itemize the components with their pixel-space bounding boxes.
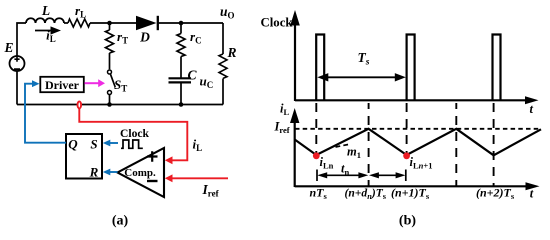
svg-text:Iref: Iref <box>202 182 220 199</box>
svg-text:S: S <box>90 136 97 151</box>
svg-text:t: t <box>530 102 534 116</box>
clock pulse 2 <box>407 35 415 101</box>
resistor R load <box>219 23 237 105</box>
resistor rL <box>68 3 90 27</box>
svg-text:(n+dn)Ts: (n+dn)Ts <box>345 187 387 202</box>
dashed timing line (n+dn)Ts <box>368 103 370 186</box>
svg-text:R: R <box>226 45 236 60</box>
clock pulse symbol <box>120 127 150 148</box>
wire Iref to comparator minus (red) <box>165 174 228 182</box>
wire driver to switch (magenta) <box>85 79 106 87</box>
arrow iL <box>35 26 61 44</box>
wire bottom rail <box>17 104 223 106</box>
capacitor C <box>169 68 214 105</box>
voltage source E <box>3 40 24 71</box>
svg-text:rT: rT <box>117 29 128 46</box>
svg-text:E: E <box>3 40 13 55</box>
svg-text:(a): (a) <box>112 214 129 229</box>
wire Q to driver (blue) <box>25 80 66 142</box>
svg-text:Clock: Clock <box>120 127 150 140</box>
svg-text:(n+1)Ts: (n+1)Ts <box>391 186 430 202</box>
svg-text:t: t <box>530 186 534 200</box>
dashed timing line (n+1)Ts <box>406 103 408 154</box>
dashed timing line nTs <box>315 103 317 154</box>
resistor rT <box>106 23 129 69</box>
node switch bottom <box>107 102 112 107</box>
clock time axis <box>295 96 539 116</box>
svg-text:iLn: iLn <box>320 155 334 171</box>
inductor L <box>26 3 64 23</box>
flip-flop latch <box>66 134 102 179</box>
diode D <box>136 16 158 45</box>
svg-text:(n+2)Ts: (n+2)Ts <box>476 186 515 202</box>
wire E bottom lead <box>16 71 18 105</box>
svg-text:m1: m1 <box>347 145 361 161</box>
svg-text:Comp.: Comp. <box>124 167 156 179</box>
wire iL sense to comparator plus (red) <box>79 109 187 164</box>
node junction rC top <box>179 21 184 26</box>
driver block <box>40 77 84 92</box>
svg-text:iL: iL <box>193 137 203 154</box>
dashed timing line (n+1+dn)Ts <box>455 103 457 186</box>
iL axis vertical <box>280 102 299 188</box>
svg-text:C: C <box>188 68 198 83</box>
node junction rT top <box>107 21 112 26</box>
resistor rC <box>177 23 202 78</box>
wire clock to S (blue) <box>103 140 118 147</box>
slope mark m1 <box>336 144 361 160</box>
node iL sense (red) <box>78 101 82 108</box>
svg-text:L: L <box>41 3 50 18</box>
iL time axis <box>295 182 540 200</box>
svg-text:Driver: Driver <box>45 78 80 92</box>
dashed timing line (n+2)Ts <box>493 103 495 186</box>
svg-text:Q: Q <box>68 136 78 151</box>
wire L to rL <box>64 22 68 24</box>
comparator Comp <box>118 148 165 197</box>
node C bottom <box>179 102 184 107</box>
tn dimension arrows <box>317 162 406 182</box>
svg-text:tn: tn <box>341 162 349 178</box>
svg-text:Ts: Ts <box>358 50 370 68</box>
clock axis vertical <box>261 10 300 101</box>
svg-text:ST: ST <box>114 77 127 94</box>
svg-text:rC: rC <box>190 29 202 46</box>
wire comp output to R (blue) <box>103 169 118 176</box>
switch ST <box>108 70 128 105</box>
svg-text:Clock: Clock <box>261 16 294 30</box>
wire E top to inductor <box>17 23 26 56</box>
clock pulse 3 <box>493 35 501 101</box>
clock pulse 1 <box>316 35 324 101</box>
sample point iLn (red) <box>313 152 334 170</box>
svg-text:(b): (b) <box>399 214 416 229</box>
iL waveform <box>295 129 541 156</box>
wire diode to uO node <box>158 22 181 24</box>
wire rL to diode <box>90 22 136 24</box>
svg-text:iLn+1: iLn+1 <box>410 155 433 171</box>
svg-text:rL: rL <box>75 3 86 20</box>
svg-text:nTs: nTs <box>310 186 328 202</box>
Iref dashed level line <box>274 120 542 136</box>
svg-text:uC: uC <box>200 74 214 91</box>
svg-text:R: R <box>89 164 99 179</box>
svg-text:D: D <box>139 30 150 45</box>
svg-text:iL: iL <box>280 102 289 118</box>
Ts dimension arrow <box>317 50 406 82</box>
svg-text:uO: uO <box>220 4 235 21</box>
sample point iLn+1 (red) <box>403 152 432 170</box>
wire uO node to corner <box>181 22 223 24</box>
svg-text:Iref: Iref <box>274 120 290 136</box>
